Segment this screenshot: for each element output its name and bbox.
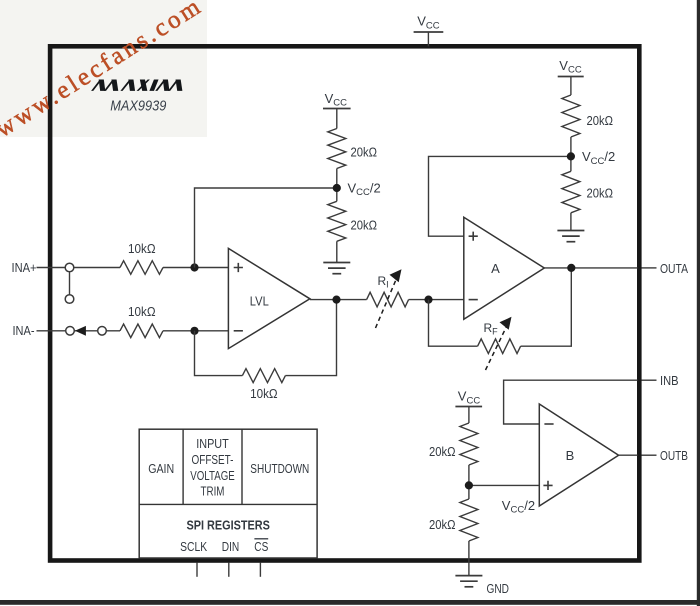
svg-text:20kΩ: 20kΩ (429, 518, 456, 532)
wire B output to OUTB pin (619, 454, 638, 456)
image frame right edge (697, 0, 700, 606)
svg-text:INB: INB (660, 374, 679, 388)
svg-text:INPUT: INPUT (196, 437, 229, 451)
op-amp LVL minus input mark (234, 330, 243, 332)
node VCC/2 left divider (333, 184, 341, 192)
resistor R 10k feedback (242, 369, 285, 383)
node VCC/2 B divider (465, 481, 473, 489)
wire LVL feedback loop (195, 331, 243, 376)
svg-text:SPI REGISTERS: SPI REGISTERS (186, 518, 270, 533)
wire A output to OUTA pin (544, 267, 637, 269)
pin CS (259, 563, 261, 577)
wire test stub INA+ (69, 268, 71, 300)
svg-text:TRIM: TRIM (201, 485, 225, 499)
resistor 20k upper right divider (562, 95, 580, 137)
op-amp B plus input mark (543, 481, 552, 490)
SPI box cell divider 2 (241, 429, 243, 504)
resistor 20k lower right divider (562, 171, 580, 213)
svg-text:GND: GND (487, 582, 510, 596)
SPI registers box (139, 429, 317, 558)
pin SCLK (196, 563, 198, 577)
chip body border MAX9939 (50, 46, 639, 560)
svg-text:A: A (491, 261, 500, 276)
wire R1 to R2 B divider (468, 465, 470, 499)
wire RI to A - input (409, 299, 464, 301)
svg-text:OUTA: OUTA (660, 262, 689, 276)
RI wiper arrowhead (390, 269, 402, 282)
op-amp B minus input mark (544, 423, 553, 425)
wire resistor to LVL - input (163, 330, 228, 332)
op-amp LVL plus input mark (234, 263, 243, 272)
wire INB pin stub (642, 379, 657, 381)
svg-text:VOLTAGE: VOLTAGE (190, 469, 235, 483)
VCC bar right divider (558, 76, 584, 78)
node junction INA- (190, 327, 198, 335)
svg-text:10kΩ: 10kΩ (250, 387, 278, 401)
wire resistor to LVL + input (163, 267, 228, 269)
resistor R 10k INA- (120, 324, 163, 338)
wire VCC/2 to LVL + node (195, 188, 337, 268)
wire VCC to R1 B divider (468, 407, 470, 424)
OUTB pin stub (642, 454, 657, 456)
svg-text:20kΩ: 20kΩ (587, 114, 614, 128)
OUTA pin stub (642, 267, 657, 269)
op-amp A minus input mark (469, 299, 478, 301)
node RI output junction (424, 296, 432, 304)
node LVL output (332, 296, 340, 304)
svg-text:20kΩ: 20kΩ (351, 219, 378, 233)
RF wiper arrowhead (500, 317, 512, 330)
op-amp A plus input mark (469, 232, 478, 241)
wire VCC/2 to B + input (469, 484, 539, 486)
VCC bar left divider (323, 108, 351, 110)
switch arrowhead INA- (75, 326, 86, 336)
wire R1 to R2 right divider (570, 137, 572, 171)
terminal circle INA+ b (65, 295, 74, 304)
RI wiper dashed line (376, 279, 397, 329)
svg-text:OUTB: OUTB (660, 449, 688, 463)
resistor RF variable (478, 339, 521, 354)
VCC bar B divider (455, 406, 482, 408)
node OUTA junction (567, 264, 575, 272)
SPI box row divider (139, 503, 317, 505)
svg-text:INA-: INA- (13, 324, 35, 338)
resistor 20k lower B divider (460, 499, 478, 541)
svg-text:CS: CS (254, 540, 268, 554)
svg-text:B: B (566, 448, 575, 463)
terminal circle INA- a (66, 327, 75, 336)
resistor RI variable (367, 292, 409, 307)
wire VCC pin to border (427, 32, 429, 46)
terminal circle INA+ a (65, 263, 74, 272)
wire RF feedback loop (429, 300, 478, 347)
wire R2 to GND pin (468, 541, 470, 576)
svg-text:20kΩ: 20kΩ (587, 187, 614, 201)
op-amp A (464, 217, 545, 319)
wire R1 to R2 left divider (336, 169, 338, 202)
node VCC/2 right divider (567, 152, 575, 160)
wire LVL output (310, 299, 367, 301)
svg-text:SCLK: SCLK (180, 540, 208, 554)
svg-text:SHUTDOWN: SHUTDOWN (250, 462, 309, 476)
svg-text:10kΩ: 10kΩ (128, 305, 156, 319)
svg-text:DIN: DIN (222, 540, 240, 554)
wire INA+ input (37, 267, 121, 269)
SPI box cell divider 1 (182, 429, 184, 504)
svg-text:20kΩ: 20kΩ (429, 445, 456, 459)
node junction INA+ (190, 263, 198, 271)
op-amp B (539, 404, 618, 506)
svg-text:GAIN: GAIN (148, 462, 174, 476)
RF wiper dashed line (486, 327, 507, 371)
watermark background panel (0, 0, 207, 137)
resistor 20k lower left divider (328, 201, 346, 241)
wire feedback to LVL output (285, 300, 336, 376)
svg-text:20kΩ: 20kΩ (351, 146, 378, 160)
svg-text:INA+: INA+ (12, 261, 37, 275)
ground GND pin (455, 575, 482, 577)
wire R2 to ground left divider (336, 241, 338, 262)
svg-text:OFFSET-: OFFSET- (192, 453, 234, 467)
Maxim logo (91, 79, 186, 90)
wire RF to OUTA node (521, 268, 572, 346)
ground left divider (323, 262, 350, 264)
resistor 20k upper B divider (460, 423, 478, 465)
wire VCC/2 to A + input (429, 156, 571, 236)
ground right divider (557, 230, 584, 232)
svg-text:MAX9939: MAX9939 (110, 99, 166, 115)
image frame bottom edge (0, 600, 700, 605)
pin DIN (228, 563, 230, 577)
wire VCC to R1 right divider (570, 77, 572, 96)
wire VCC to R1 left divider (336, 109, 338, 129)
op-amp LVL (228, 248, 310, 348)
svg-text:10kΩ: 10kΩ (128, 242, 156, 256)
wire R2 to ground right divider (570, 213, 572, 231)
wire INA- input (37, 330, 121, 332)
resistor R 10k INA+ (120, 261, 163, 275)
resistor 20k upper left divider (328, 129, 346, 169)
wire INB to B - input (504, 380, 638, 424)
terminal circle INA- b (98, 327, 107, 336)
svg-text:LVL: LVL (250, 294, 269, 309)
VCC top pin bar (414, 31, 444, 33)
